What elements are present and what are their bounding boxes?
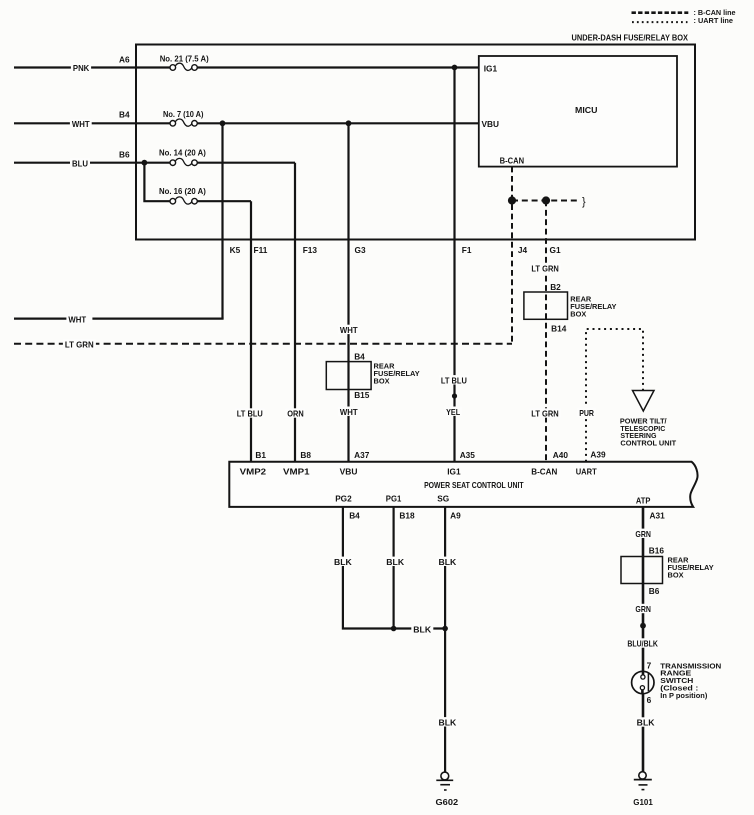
fuse No. 14 (20 A) — [159, 147, 206, 166]
svg-text:SG: SG — [437, 493, 449, 503]
svg-text:PNK: PNK — [73, 63, 89, 73]
wire SG vertical — [444, 507, 446, 772]
label BLK on ATP — [635, 717, 657, 727]
label BLK on PG2 — [332, 557, 354, 567]
svg-text:POWER SEAT CONTROL UNIT: POWER SEAT CONTROL UNIT — [424, 480, 524, 490]
svg-text:LT BLU: LT BLU — [441, 375, 467, 385]
label PNK — [71, 63, 91, 73]
wire K5 vertical — [221, 123, 223, 318]
legend B-CAN line sample — [632, 8, 737, 17]
label WHT on G3 upper — [338, 325, 360, 335]
svg-text:VMP2: VMP2 — [240, 466, 267, 476]
svg-text:VBU: VBU — [340, 466, 358, 476]
rear fuse/relay box (G3) — [326, 362, 419, 390]
svg-text:PUR: PUR — [579, 408, 594, 418]
node B-CAN splice 1 — [508, 196, 516, 204]
wire BLK horizontal join — [394, 627, 446, 629]
label BLK on SG lower — [437, 717, 459, 727]
svg-text:No. 7 (10 A): No. 7 (10 A) — [163, 109, 204, 119]
svg-text:UNDER-DASH FUSE/RELAY BOX: UNDER-DASH FUSE/RELAY BOX — [572, 33, 689, 43]
svg-text:B6: B6 — [119, 149, 130, 159]
svg-text:WHT: WHT — [72, 119, 90, 129]
label BLK on PG1 — [384, 557, 406, 567]
wire ATP vertical — [642, 507, 645, 772]
label GRN on ATP — [633, 529, 653, 539]
svg-text:B2: B2 — [550, 282, 561, 292]
svg-text:B4: B4 — [354, 351, 365, 361]
node B-CAN splice 2 — [542, 196, 550, 204]
label LT GRN on G1 — [529, 263, 561, 273]
label POWER TILT/TELESCOPIC STEERING CONTROL UNIT — [620, 416, 677, 447]
label TRANSMISSION RANGE SWITCH — [660, 661, 721, 700]
svg-text:G3: G3 — [355, 245, 366, 255]
label LT BLU on F1 — [439, 375, 469, 385]
node splice on ATP — [640, 623, 646, 629]
label LT GRN lower on G1 — [529, 408, 561, 418]
label ORN on F13 — [285, 408, 305, 418]
svg-text:VBU: VBU — [482, 119, 500, 129]
svg-text:LT GRN: LT GRN — [531, 409, 558, 419]
svg-text:}: } — [582, 196, 586, 208]
rear fuse/relay box (G1) — [524, 292, 617, 319]
svg-text:ORN: ORN — [287, 409, 304, 419]
svg-text:IG1: IG1 — [484, 64, 498, 74]
node PG1 junction — [391, 626, 397, 632]
svg-text:B4: B4 — [119, 110, 130, 120]
node SG junction — [442, 626, 448, 632]
node branch junction on BLU wire — [142, 160, 148, 166]
svg-text:In P position): In P position) — [660, 691, 708, 700]
MICU U1 — [479, 56, 677, 167]
svg-text:IG1: IG1 — [447, 466, 461, 476]
fuse No. 16 (20 A) — [159, 186, 206, 205]
under-dash fuse/relay box — [136, 33, 695, 240]
wire F13 vertical — [294, 163, 296, 462]
node K5 junction on WHT wire — [220, 120, 226, 126]
svg-text:G101: G101 — [633, 797, 653, 807]
svg-text:G602: G602 — [436, 797, 459, 807]
node G3 junction on WHT wire — [346, 120, 352, 126]
svg-text:WHT: WHT — [68, 315, 86, 325]
svg-text:LT GRN: LT GRN — [65, 340, 94, 350]
svg-text:F13: F13 — [303, 245, 318, 255]
svg-text:CONTROL UNIT: CONTROL UNIT — [620, 439, 676, 448]
wire G3 vertical — [347, 123, 349, 461]
wire B-CAN horizontal dashed — [512, 200, 578, 202]
svg-text:B-CAN: B-CAN — [531, 466, 557, 476]
svg-text:LT GRN: LT GRN — [531, 264, 558, 274]
svg-text:No. 14 (20 A): No. 14 (20 A) — [159, 147, 206, 157]
svg-text:G1: G1 — [550, 245, 561, 255]
svg-text:ATP: ATP — [636, 496, 651, 506]
wire F1 vertical — [453, 68, 455, 462]
svg-text:6: 6 — [647, 695, 652, 705]
svg-text:WHT: WHT — [340, 407, 358, 417]
svg-text:YEL: YEL — [446, 407, 460, 417]
svg-text:PG2: PG2 — [335, 493, 352, 503]
wire BLU horizontal — [14, 162, 295, 164]
svg-text:BOX: BOX — [570, 309, 586, 318]
wire F11 vertical — [250, 201, 252, 462]
wire WHT horizontal — [14, 122, 479, 124]
svg-text:B-CAN: B-CAN — [500, 155, 525, 165]
svg-text:VMP1: VMP1 — [283, 466, 310, 476]
wire UART dotted — [586, 329, 643, 462]
svg-text:F1: F1 — [462, 245, 472, 255]
fuse No. 21 (7.5 A) — [160, 53, 209, 71]
label WHT lower — [66, 314, 92, 324]
svg-text:A6: A6 — [119, 54, 130, 64]
wire G1 dashed vertical — [545, 201, 547, 462]
svg-text:B8: B8 — [300, 450, 311, 460]
wire PG2 vertical — [343, 507, 394, 629]
svg-text:BLU: BLU — [72, 158, 88, 168]
node F1 junction on PNK wire — [452, 65, 458, 71]
wire PG1 vertical — [393, 507, 395, 629]
svg-text:: UART line: : UART line — [694, 16, 734, 25]
transmission range switch — [632, 671, 654, 693]
svg-text:A35: A35 — [460, 450, 476, 460]
svg-text:BLK: BLK — [386, 557, 404, 567]
svg-text:B4: B4 — [349, 510, 360, 520]
svg-text:BLK: BLK — [413, 625, 431, 635]
svg-text:BLK: BLK — [334, 557, 352, 567]
svg-text:BLK: BLK — [439, 717, 457, 727]
label WHT — [70, 119, 92, 129]
svg-text:BOX: BOX — [374, 377, 390, 386]
label YEL on F1 — [444, 407, 462, 417]
legend UART line sample — [632, 16, 734, 25]
wire branch BLU down to fuse 16 — [144, 163, 251, 202]
svg-text:A40: A40 — [553, 450, 569, 460]
wire LT GRN dashed horizontal — [14, 343, 512, 345]
label BLK on join — [411, 624, 433, 634]
svg-text:A37: A37 — [354, 450, 370, 460]
svg-text:F11: F11 — [254, 245, 268, 255]
label GRN on ATP lower — [633, 604, 653, 614]
svg-text:MICU: MICU — [575, 105, 598, 115]
svg-text:B16: B16 — [649, 546, 665, 556]
label PUR — [577, 408, 596, 418]
svg-text:B14: B14 — [551, 323, 567, 333]
svg-text:UART: UART — [576, 466, 597, 476]
label BLK on SG — [437, 557, 459, 567]
label LT GRN — [63, 339, 96, 349]
label WHT on G3 lower — [338, 407, 360, 417]
svg-text:LT BLU: LT BLU — [237, 409, 263, 419]
svg-text:BLK: BLK — [439, 557, 457, 567]
svg-text:PG1: PG1 — [386, 493, 402, 503]
wire WHT lower horizontal — [14, 318, 224, 320]
svg-text:GRN: GRN — [635, 604, 651, 614]
label BLU/BLK — [625, 638, 660, 648]
svg-text:B1: B1 — [255, 450, 266, 460]
svg-text:B15: B15 — [354, 390, 370, 400]
svg-text:WHT: WHT — [340, 325, 358, 335]
svg-text:GRN: GRN — [635, 529, 651, 539]
svg-text:A9: A9 — [450, 510, 461, 520]
connector arrow to power tilt unit — [633, 391, 655, 412]
node splice on F1 — [452, 393, 457, 398]
svg-text:BLK: BLK — [637, 718, 655, 728]
ground G101 — [633, 772, 653, 807]
svg-text:No. 16 (20 A): No. 16 (20 A) — [159, 186, 206, 196]
svg-text:J4: J4 — [518, 245, 528, 255]
label LT BLU on F11 — [235, 408, 265, 418]
svg-text:A39: A39 — [590, 449, 606, 459]
power seat control unit box — [229, 462, 697, 507]
label BLU — [70, 158, 90, 168]
svg-text:BLU/BLK: BLU/BLK — [627, 639, 658, 649]
ground G602 — [436, 772, 459, 807]
svg-text:No. 21 (7.5 A): No. 21 (7.5 A) — [160, 53, 209, 63]
wire PNK horizontal — [14, 66, 479, 68]
svg-text:7: 7 — [647, 661, 652, 671]
svg-text:B18: B18 — [399, 510, 415, 520]
svg-text:B6: B6 — [649, 586, 660, 596]
svg-text:K5: K5 — [230, 245, 241, 255]
svg-text:A31: A31 — [650, 510, 666, 520]
rear fuse/relay box (ATP) — [621, 556, 714, 584]
svg-text:BOX: BOX — [668, 571, 684, 580]
wire B-CAN vertical from MICU (J4) dashed — [511, 167, 513, 344]
fuse No. 7 (10 A) — [163, 109, 204, 127]
